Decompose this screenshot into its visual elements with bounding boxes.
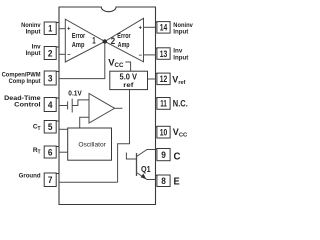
svg-text:10: 10 [160, 127, 168, 137]
wire 5.0V ref to pin 12 Vref [148, 78, 156, 80]
svg-text:Input: Input [26, 50, 42, 57]
pin box 1 [44, 22, 59, 35]
op-amp dead-time comparator [89, 94, 115, 124]
op-amp U1 error amp 1 triangle [65, 19, 105, 62]
svg-text:1: 1 [48, 24, 52, 34]
svg-text:VCC: VCC [108, 58, 124, 70]
svg-text:12: 12 [160, 74, 168, 84]
svg-text:0.1V: 0.1V [68, 91, 82, 98]
svg-text:C: C [174, 151, 181, 162]
svg-text:Amp: Amp [72, 42, 85, 49]
svg-text:11: 11 [160, 99, 167, 109]
svg-text:CT: CT [33, 124, 41, 132]
pin box 9 [156, 149, 171, 161]
5.0 V ref box [110, 71, 148, 89]
oscillator box [68, 128, 112, 160]
pin box 12 [156, 73, 171, 85]
svg-text:Vref: Vref [172, 74, 185, 86]
ground wire from pin7 [59, 181, 118, 183]
svg-text:Input: Input [173, 29, 189, 36]
pin box 10 [156, 126, 171, 138]
svg-text:2: 2 [48, 48, 53, 58]
pin box 8 [156, 175, 171, 187]
svg-text:5: 5 [48, 122, 53, 132]
svg-text:14: 14 [160, 23, 168, 33]
transistor Q1 emitter [137, 173, 156, 180]
svg-text:+: + [139, 25, 143, 31]
pin box 14 [156, 22, 171, 33]
pin box 13 [156, 48, 171, 60]
pin box 7 [44, 173, 59, 187]
wire pin5 CT to oscillator [59, 128, 68, 130]
VCC label [108, 58, 124, 70]
node junction dot of error amp outputs [103, 39, 107, 43]
svg-text:−: − [67, 53, 71, 59]
svg-text:−: − [139, 53, 143, 59]
svg-text:Oscillator: Oscillator [78, 142, 106, 149]
transistor Q1 collector [137, 150, 156, 157]
wire 5.0V ref down to ground rail [118, 90, 130, 183]
pin box 5 [44, 121, 59, 134]
svg-text:Amp: Amp [118, 42, 130, 49]
svg-text:Input: Input [26, 29, 42, 36]
wire oscillator to comparator lower input [80, 117, 89, 128]
pin box 11 [156, 98, 171, 110]
0.1V battery source [67, 101, 69, 109]
wire pin6 RT to oscillator [59, 151, 68, 153]
svg-text:3: 3 [48, 73, 53, 83]
wire battery to dead-time comparator + input [72, 100, 89, 106]
svg-text:13: 13 [160, 49, 168, 59]
svg-text:Q1: Q1 [141, 164, 151, 174]
pin box 4 [44, 98, 59, 112]
transistor Q1 emitter arrow [141, 174, 147, 180]
svg-text:Error: Error [117, 33, 131, 40]
svg-text:N.C.: N.C. [173, 99, 188, 109]
svg-text:Error: Error [72, 33, 86, 40]
svg-text:Control: Control [14, 102, 41, 109]
svg-text:6: 6 [48, 147, 53, 157]
IC body outline with notch [59, 7, 156, 205]
pin box 3 [44, 71, 59, 85]
pin box 2 [44, 47, 59, 60]
svg-text:7: 7 [48, 175, 53, 185]
wire pin14 to error amp 2 + input [144, 26, 156, 28]
wire VCC to 5.0V ref box [125, 62, 130, 71]
svg-text:Input: Input [173, 54, 189, 61]
svg-text:VCC: VCC [173, 127, 188, 139]
svg-text:1: 1 [92, 36, 95, 46]
wire pin4 to 0.1V source [59, 105, 67, 107]
wire pin13 to error amp 2 - input [144, 54, 156, 56]
svg-text:Ground: Ground [19, 173, 41, 180]
comparator output stub [115, 107, 123, 109]
svg-text:Comp Input: Comp Input [9, 78, 42, 85]
svg-text:4: 4 [48, 100, 53, 110]
right pin labels [172, 22, 193, 188]
svg-text:9: 9 [161, 150, 166, 160]
wire pin1 to error amp 1 + input [59, 28, 65, 30]
svg-text:RT: RT [33, 147, 41, 155]
svg-text:E: E [174, 177, 181, 188]
pin box 6 [44, 146, 59, 158]
svg-text:5.0 V: 5.0 V [120, 73, 138, 82]
op-amp U2 error amp 2 triangle [105, 18, 144, 62]
transistor Q1 base bar [136, 153, 138, 176]
svg-text:2: 2 [111, 36, 115, 46]
svg-text:8: 8 [161, 176, 166, 186]
transistor Q1 base stub [126, 153, 136, 160]
wire pin2 to error amp 1 - input [59, 53, 65, 55]
svg-text:ref: ref [123, 82, 134, 89]
svg-text:+: + [67, 27, 71, 33]
left pin labels [2, 22, 42, 180]
wire from junction down to pin3 feedback [59, 43, 105, 79]
